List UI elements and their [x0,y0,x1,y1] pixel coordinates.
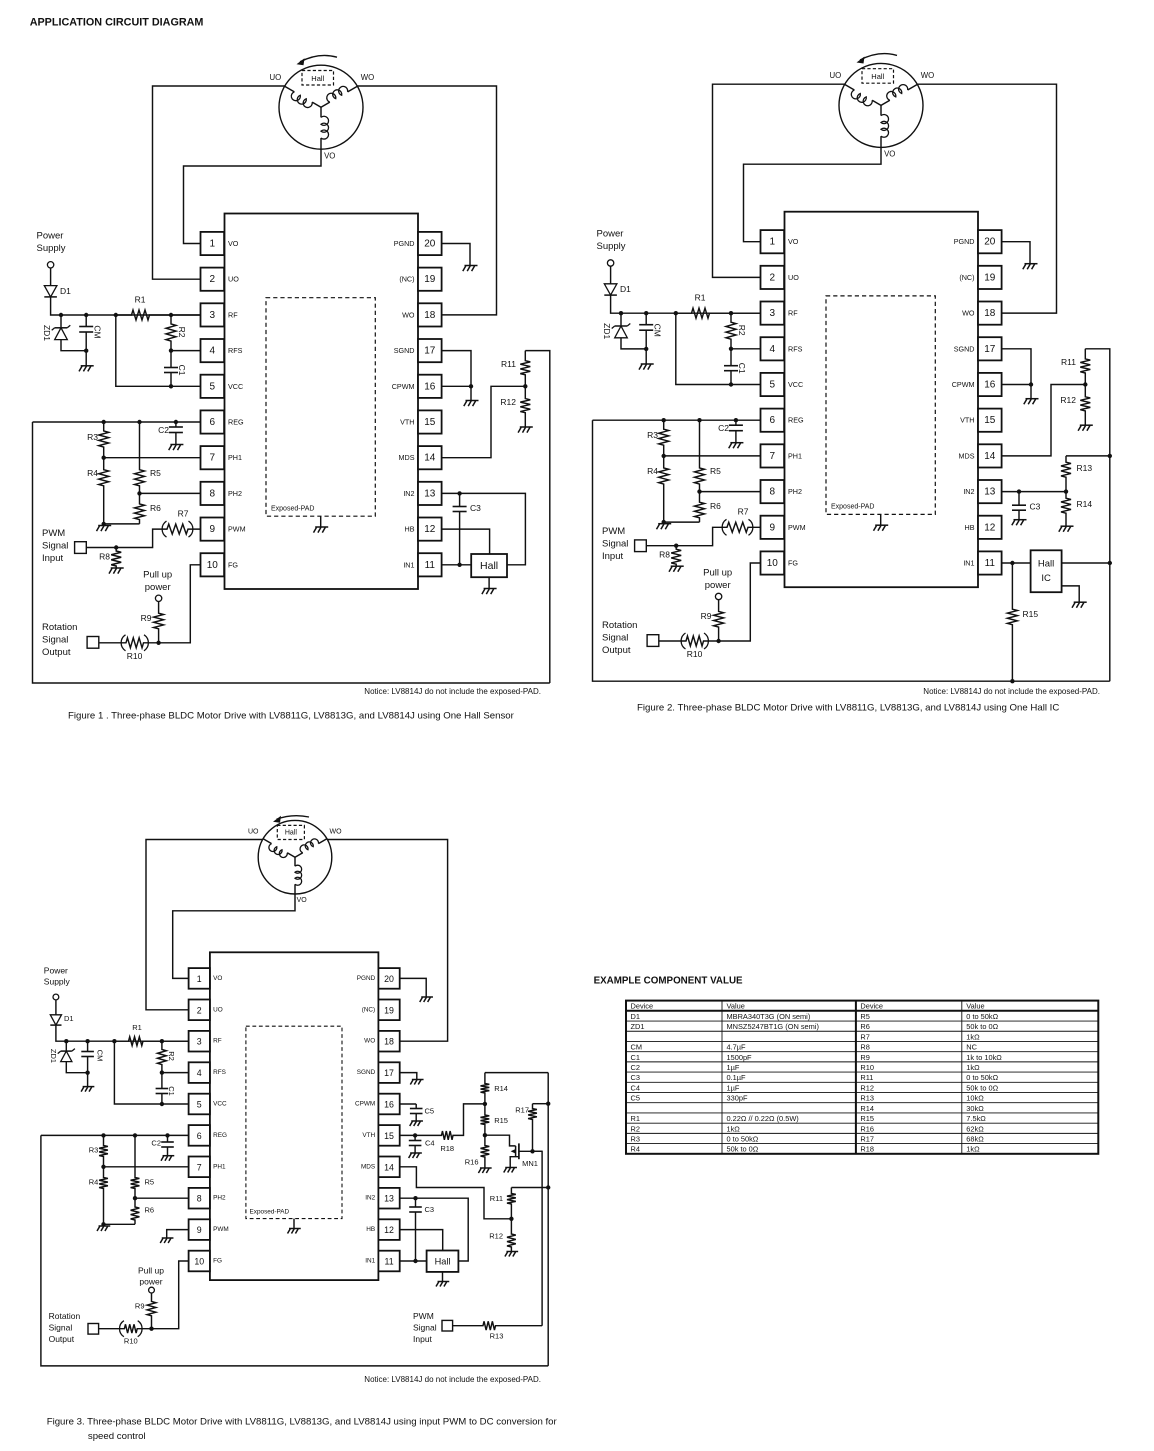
svg-text:R5: R5 [710,466,721,476]
svg-text:Figure 2. Three-phase BLDC Mot: Figure 2. Three-phase BLDC Motor Drive w… [637,703,1059,714]
svg-text:RFS: RFS [788,344,803,353]
svg-text:PWM: PWM [228,525,246,534]
svg-text:Pull up: Pull up [703,568,732,579]
pin 15 box VTH (fig1) [418,410,442,433]
pin 9 box PWM (fig1) [201,518,225,541]
svg-text:UO: UO [788,273,799,282]
junction IN1/R15 (fig2) [1010,561,1014,565]
svg-text:REG: REG [788,416,804,425]
svg-text:R9: R9 [701,611,712,621]
motor 3-phase BLDC (fig1) [279,65,363,149]
svg-text:R11: R11 [1061,357,1076,367]
svg-text:9: 9 [197,1225,202,1235]
junction CM/ZD1 ground node (fig1) [84,349,88,353]
svg-text:16: 16 [384,1100,394,1110]
resistor R6 (fig2) [695,492,705,522]
svg-text:2: 2 [210,274,216,285]
svg-text:PGND: PGND [394,239,415,248]
ground SGND/CPWM (fig2) [1024,399,1039,405]
wire FG pin 10 to rotation node (fig3) [152,1261,189,1329]
svg-text:R9: R9 [860,1053,869,1062]
svg-text:R5: R5 [860,1012,869,1021]
svg-text:WO: WO [921,71,934,80]
wire left REG loop (fig3) [41,1135,548,1366]
svg-text:C1: C1 [737,363,747,374]
svg-text:C3: C3 [425,1205,435,1214]
junction REG/R5 (fig3) [133,1133,137,1137]
diode D1 (fig1) [44,286,57,297]
pin 18 box WO (fig1) [418,303,442,326]
svg-text:10: 10 [767,558,779,569]
junction supply rail / CM (fig1) [84,313,88,317]
wire PH1 to pin 7 (fig2) [664,455,761,457]
svg-text:MDS: MDS [361,1163,375,1170]
svg-text:1µF: 1µF [727,1083,740,1092]
svg-text:R3: R3 [647,430,658,440]
svg-text:R18: R18 [860,1145,874,1154]
svg-text:20: 20 [384,974,394,984]
svg-text:MDS: MDS [959,451,975,460]
svg-text:CPWM: CPWM [355,1101,375,1108]
svg-text:8: 8 [197,1194,202,1204]
pin 6 box REG (fig3) [189,1125,210,1146]
svg-text:EXAMPLE COMPONENT VALUE: EXAMPLE COMPONENT VALUE [594,976,743,987]
svg-text:C5: C5 [631,1094,640,1103]
svg-text:9: 9 [210,524,216,535]
junction REG/C2 (fig1) [174,420,178,424]
junction REG/R3 (fig3) [101,1133,105,1137]
capacitor C1 (fig1) [164,351,178,387]
svg-text:C2: C2 [718,423,729,433]
svg-text:R15: R15 [1023,609,1039,619]
resistor R16 (fig3) [481,1135,490,1168]
pin 19 box (NC) (fig1) [418,268,442,291]
pin 16 box CPWM (fig1) [418,375,442,398]
pin 7 box PH1 (fig2) [761,444,785,467]
svg-text:7: 7 [210,453,216,464]
junction MN1 drain/R17 (fig3) [530,1149,534,1153]
resistor R4 (fig3) [99,1167,108,1225]
PWM input pad (fig2) [635,540,647,552]
resistor R10 (fig3) [99,1321,152,1337]
resistor R11 (fig3) [507,1188,516,1219]
junction R15 bottom rail (fig2) [1010,679,1014,683]
pin 10 box FG (fig1) [201,553,225,576]
svg-text:1: 1 [770,237,776,248]
svg-text:power: power [705,580,731,591]
junction CM/ZD1 ground node (fig2) [644,347,648,351]
svg-text:PH1: PH1 [788,451,802,460]
svg-text:R12: R12 [500,397,516,407]
pin 7 box PH1 (fig3) [189,1157,210,1178]
wire SGND pin 17 (fig1) [442,351,471,387]
power supply terminal (fig3) [53,994,59,1000]
junction R9/R10/FG (fig1) [156,641,160,645]
ground C2 (fig2) [729,443,744,449]
resistor R2 (fig3) [158,1041,167,1072]
wire IN2 pin 13 loop to Hall plus (fig1) [442,493,526,564]
svg-text:50k to 0Ω: 50k to 0Ω [966,1083,998,1092]
svg-text:R1: R1 [135,295,146,305]
svg-text:3: 3 [197,1037,202,1047]
svg-text:6: 6 [210,417,216,428]
svg-text:speed control: speed control [88,1431,146,1442]
wire RFS to pin 4 (fig2) [731,348,761,350]
svg-text:VO: VO [228,239,239,248]
resistor R10 (fig1) [99,635,159,651]
pin 13 box IN2 (fig1) [418,482,442,505]
svg-text:R18: R18 [440,1144,454,1153]
svg-text:PH2: PH2 [213,1195,226,1202]
junction R14/R15/R18 (fig3) [483,1102,487,1106]
pin 10 box FG (fig2) [761,551,785,574]
svg-text:FG: FG [213,1258,222,1265]
pin 5 box VCC (fig1) [201,375,225,398]
pin 12 box HB (fig3) [378,1219,399,1240]
svg-text:R10: R10 [124,1336,138,1345]
junction R3/R4/PH1 (fig2) [662,454,666,458]
svg-text:R4: R4 [89,1178,99,1187]
svg-text:SGND: SGND [394,346,415,355]
wire SGND pin 17 to ground (fig3) [400,1073,417,1080]
pin 2 box UO (fig2) [761,266,785,289]
svg-text:0 to 50kΩ: 0 to 50kΩ [966,1073,998,1082]
svg-text:19: 19 [424,274,436,285]
junction R5/R6/PH2 (fig2) [697,489,701,493]
svg-text:PWM: PWM [42,528,65,539]
rotation direction arrow (fig1) [297,55,338,65]
junction R13/R14/IN2 (fig2) [1064,489,1068,493]
svg-text:20: 20 [984,237,996,248]
wire UO winding to pin 2 (fig3) [146,840,263,1010]
junction R4/R6 ground node (fig3) [101,1222,105,1226]
resistor R13 (fig3) [478,1321,542,1330]
transistor MN1 n-channel MOSFET (fig3) [485,1135,542,1167]
ground SGND (fig3) [410,1080,423,1085]
diode D1 (fig3) [50,1015,61,1025]
pin 20 box PGND (fig1) [418,232,442,255]
svg-text:14: 14 [424,453,436,464]
svg-text:0.1µF: 0.1µF [727,1073,747,1082]
wire REG rail (fig2) [593,419,761,421]
capacitor C5 (fig3) [410,1104,423,1121]
svg-text:R11: R11 [860,1073,873,1082]
wire PH1 to pin 7 (fig3) [104,1166,189,1168]
svg-text:Input: Input [413,1334,433,1344]
wire MDS pin 14 to divider tap (fig3) [400,1167,512,1219]
capacitor C2 (fig2) [729,420,743,443]
power supply terminal (fig1) [47,262,53,268]
svg-text:APPLICATION CIRCUIT DIAGRAM: APPLICATION CIRCUIT DIAGRAM [30,16,204,28]
svg-text:RFS: RFS [228,346,243,355]
svg-text:8: 8 [210,488,216,499]
junction REG/R5 (fig2) [697,418,701,422]
svg-text:D1: D1 [60,286,71,296]
svg-text:IN2: IN2 [365,1195,375,1202]
wire PH2 to pin 8 (fig1) [140,492,201,494]
ground Hall IC (fig2) [1072,602,1087,608]
wire IN2 pin 13 to R13/R14 tap (fig2) [1002,491,1066,493]
resistor R11 (fig2) [1080,349,1090,385]
svg-text:Power: Power [37,231,64,242]
wire D1 to supply rail (fig3) [56,1025,189,1041]
junction R11/R12/MDS (fig3) [509,1217,513,1221]
wire top rail R14 to right rail (fig3) [485,1072,548,1074]
svg-text:R6: R6 [710,501,721,511]
svg-text:13: 13 [984,487,996,498]
resistor R2 (fig2) [726,313,736,349]
svg-text:R3: R3 [631,1134,640,1143]
svg-text:17: 17 [384,1068,394,1078]
power supply terminal (fig2) [607,260,613,266]
junction supply rail / ZD1 (fig1) [59,313,63,317]
pin 13 box IN2 (fig3) [378,1188,399,1209]
resistor R12 (fig1) [520,386,530,427]
svg-text:330pF: 330pF [727,1094,748,1103]
capacitor C1 (fig3) [156,1073,169,1104]
svg-text:16: 16 [984,380,996,391]
svg-text:VO: VO [297,897,308,904]
pin 20 box PGND (fig3) [378,968,399,989]
PWM input pad (fig3) [442,1320,453,1331]
svg-text:Notice: LV8814J do not include: Notice: LV8814J do not include the expos… [923,687,1100,696]
svg-text:Device: Device [631,1002,654,1011]
wire R11 top to REG rail (fig2) [1085,349,1110,681]
junction R4/R6 ground node (fig1) [102,522,106,526]
svg-text:10: 10 [194,1257,204,1267]
resistor R8 (fig2) [671,546,681,567]
svg-text:ZD1: ZD1 [42,325,52,341]
svg-text:R4: R4 [631,1145,640,1154]
ground CM (fig3) [81,1087,94,1092]
ground R8 (fig2) [669,566,684,572]
wire PGND pin 20 to ground (fig2) [1002,242,1030,264]
junction IN1/C3 (fig3) [413,1259,417,1263]
pin 8 box PH2 (fig1) [201,482,225,505]
svg-text:IC: IC [1041,573,1051,584]
junction R4/R6 ground node (fig2) [662,520,666,524]
svg-text:13: 13 [424,488,436,499]
svg-text:PWM: PWM [602,526,625,537]
svg-text:5: 5 [770,380,776,391]
svg-text:Output: Output [49,1334,75,1344]
svg-text:12: 12 [384,1225,394,1235]
svg-text:VO: VO [884,150,895,159]
svg-text:RF: RF [228,310,238,319]
svg-text:R12: R12 [860,1083,874,1092]
ground exposed-pad (fig1) [314,527,329,533]
svg-text:R17: R17 [860,1134,874,1143]
svg-text:5: 5 [210,381,216,392]
svg-text:10kΩ: 10kΩ [966,1094,984,1103]
svg-text:18: 18 [984,308,996,319]
svg-text:D1: D1 [631,1012,640,1021]
pin 9 box PWM (fig3) [189,1219,210,1240]
zener diode ZD1 (fig2) [612,324,631,338]
resistor R4 (fig2) [659,456,669,522]
svg-text:Rotation: Rotation [42,622,77,633]
svg-text:0 to 50kΩ: 0 to 50kΩ [727,1134,759,1143]
svg-text:11: 11 [985,558,996,569]
pin 3 box RF (fig1) [201,303,225,326]
wire MDS pin 14 to divider tap (fig1) [442,386,526,457]
wire Hall IC to REG rail (fig2) [1062,562,1110,564]
wire exposed-pad to ground (fig2) [880,514,882,525]
junction supply rail / R2 (fig1) [169,313,173,317]
wire right rail vertical (fig3) [547,1073,549,1366]
pin 14 box MDS (fig3) [378,1157,399,1178]
wire supply terminal to D1 (fig2) [610,266,612,284]
pin 14 box MDS (fig1) [418,446,442,469]
pin 13 box IN2 (fig2) [978,480,1002,503]
pin 10 box FG (fig3) [189,1251,210,1272]
ground PGND (fig2) [1023,264,1038,270]
svg-text:C2: C2 [631,1063,640,1072]
wire RFS to pin 4 (fig1) [171,350,201,352]
wire ZD1 top (fig1) [60,315,62,328]
svg-text:1µF: 1µF [727,1063,740,1072]
svg-text:Notice: LV8814J do not include: Notice: LV8814J do not include the expos… [364,1375,541,1384]
wire exposed-pad to ground (fig3) [293,1219,295,1229]
pin 11 box IN1 (fig2) [978,551,1002,574]
wire ZD1 top (fig3) [65,1041,67,1051]
junction REG/C2 (fig3) [165,1133,169,1137]
svg-text:(NC): (NC) [399,275,414,284]
ground R12 (fig1) [518,427,533,433]
resistor R9 (fig2) [714,600,724,641]
pin 4 box RFS (fig1) [201,339,225,362]
pin 1 box VO (fig2) [761,230,785,253]
svg-text:R2: R2 [167,1051,176,1061]
pin 4 box RFS (fig2) [761,337,785,360]
svg-text:Pull up: Pull up [143,570,172,581]
pin 18 box WO (fig2) [978,302,1002,325]
svg-text:15: 15 [984,415,996,426]
junction supply rail / R2 (fig2) [729,311,733,315]
svg-text:3: 3 [210,310,216,321]
svg-text:R17: R17 [515,1106,529,1115]
svg-text:Signal: Signal [49,1322,73,1332]
svg-text:14: 14 [984,451,996,462]
junction REG/R3 (fig2) [662,418,666,422]
junction R9/R10/FG (fig2) [716,639,720,643]
junction VTH/C4 (fig3) [413,1133,417,1137]
svg-text:MBRA340T3G (ON semi): MBRA340T3G (ON semi) [727,1012,811,1021]
svg-text:PWM: PWM [788,523,806,532]
svg-text:R8: R8 [860,1043,869,1052]
junction supply rail / R2 (fig3) [160,1039,164,1043]
svg-text:R5: R5 [145,1178,155,1187]
wire R18 to R14/R15 junction (fig3) [456,1104,485,1136]
junction REG/R5 (fig1) [137,420,141,424]
svg-text:FG: FG [788,559,798,568]
pull-up power terminal (fig1) [155,595,161,601]
svg-text:0 to 50kΩ: 0 to 50kΩ [966,1012,998,1021]
svg-text:30kΩ: 30kΩ [966,1104,984,1113]
svg-text:UO: UO [829,71,841,80]
resistor R6 (fig3) [131,1198,140,1224]
svg-text:14: 14 [384,1162,394,1172]
svg-text:MDS: MDS [399,453,415,462]
svg-text:Pull up: Pull up [138,1266,164,1276]
motor 3-phase BLDC (fig2) [839,63,923,147]
Exposed-PAD dashed outline (fig2) [826,296,935,515]
ground R4/R6 (fig1) [97,526,112,532]
junction supply rail / ZD1 (fig3) [64,1039,68,1043]
svg-text:CM: CM [653,324,663,337]
junction SGND/CPWM (fig2) [1029,382,1033,386]
svg-text:IN1: IN1 [963,559,974,568]
svg-text:R14: R14 [860,1104,874,1113]
svg-text:11: 11 [425,560,436,571]
wire PH1 to pin 7 (fig1) [104,457,201,459]
wire FG pin 10 to rotation node (fig1) [159,565,201,643]
wire VCC branch vertical (fig2) [676,313,761,384]
pin 2 box UO (fig1) [201,268,225,291]
svg-text:R16: R16 [860,1124,874,1133]
component value table grid [626,1001,1098,1154]
ground PGND (fig1) [463,266,478,272]
svg-text:4.7µF: 4.7µF [727,1043,747,1052]
rotation direction arrow (fig2) [857,54,898,64]
Hall sensor box (fig1) [471,554,507,577]
svg-text:R1: R1 [132,1023,142,1032]
pin 2 box UO (fig3) [189,1000,210,1021]
wire SGND/CPWM to ground (fig1) [470,386,472,400]
svg-text:UO: UO [228,275,239,284]
svg-text:Signal: Signal [413,1323,437,1333]
pin 6 box REG (fig2) [761,409,785,432]
svg-text:R9: R9 [135,1302,145,1311]
Exposed-PAD dashed outline (fig3) [246,1026,342,1218]
wire R4/R6 common to ground (fig2) [664,521,700,523]
svg-text:Signal: Signal [602,539,628,550]
svg-text:17: 17 [424,346,436,357]
svg-text:UO: UO [248,829,259,836]
pin 20 box PGND (fig2) [978,230,1002,253]
svg-text:R13: R13 [1077,463,1093,473]
capacitor C3 (fig1) [453,493,467,564]
capacitor CM (fig1) [79,315,93,366]
svg-text:Hall: Hall [1038,559,1054,570]
wire IN2 pin 13 loop to Hall plus (fig3) [400,1198,469,1261]
ground C3 (fig2) [1012,520,1027,526]
IC body LV8811G/LV8813G/LV8814J (fig1) [225,214,419,590]
svg-text:SGND: SGND [357,1069,376,1076]
svg-text:Signal: Signal [42,541,68,552]
svg-text:1kΩ: 1kΩ [966,1032,980,1041]
svg-text:50k to 0Ω: 50k to 0Ω [727,1145,759,1154]
resistor R5 (fig2) [695,420,705,491]
junction IN2/C3 (fig2) [1017,489,1021,493]
ground SGND/CPWM (fig1) [464,401,479,407]
svg-text:6: 6 [770,415,776,426]
wire R13 top to REG rail (fig2) [1066,455,1110,457]
junction R3/R4/PH1 (fig3) [101,1165,105,1169]
svg-text:19: 19 [984,272,996,283]
pin 12 box HB (fig2) [978,516,1002,539]
diode D1 (fig2) [604,284,617,295]
svg-text:Hall: Hall [435,1257,451,1267]
pin 12 box HB (fig1) [418,518,442,541]
pin 17 box SGND (fig3) [378,1062,399,1083]
wire CPWM pin 16 (fig2) [1002,384,1031,386]
wire VCC branch vertical (fig1) [116,315,201,386]
pin 11 box IN1 (fig1) [418,553,442,576]
svg-text:18: 18 [424,310,436,321]
svg-text:1kΩ: 1kΩ [966,1063,980,1072]
junction PWM input/R8 (fig1) [114,545,118,549]
